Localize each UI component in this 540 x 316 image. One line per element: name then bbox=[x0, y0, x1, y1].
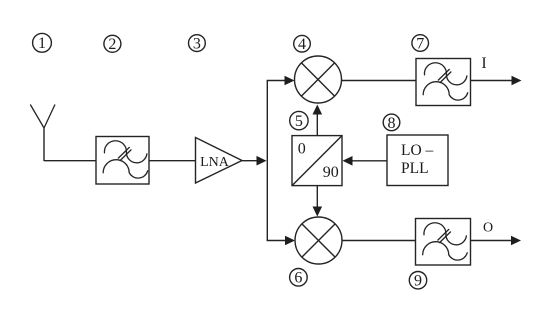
wire LO-PLL to phase box (arrow left) bbox=[343, 156, 388, 166]
callout 5 bbox=[290, 111, 308, 130]
svg-text:O: O bbox=[483, 221, 493, 236]
callout 4 bbox=[294, 35, 311, 53]
svg-text:1: 1 bbox=[38, 35, 46, 52]
wire mixer4 to filter7 bbox=[342, 80, 417, 82]
filter F9 (low-pass Q) bbox=[416, 219, 471, 266]
filter F2 (band-pass) bbox=[96, 137, 149, 185]
phase splitter 0/90 box bbox=[292, 136, 342, 186]
wire filter7 to I output bbox=[471, 76, 522, 86]
svg-text:I: I bbox=[481, 55, 486, 72]
antenna bbox=[30, 105, 55, 162]
svg-text:LO –: LO – bbox=[401, 142, 434, 159]
wire filter9 to O output bbox=[471, 236, 522, 246]
wire node to mixer4 bbox=[267, 76, 295, 86]
node split vertical wire bbox=[266, 81, 268, 241]
callout 1 bbox=[33, 33, 52, 52]
filter F7 (low-pass I) bbox=[416, 59, 471, 106]
oscillator LO-PLL box bbox=[387, 135, 448, 186]
wire phase box to mixer6 (arrow down) bbox=[313, 186, 323, 217]
callout 2 bbox=[104, 35, 121, 53]
svg-text:3: 3 bbox=[193, 36, 201, 53]
wire phase box to mixer4 (arrow up) bbox=[313, 105, 323, 136]
svg-text:5: 5 bbox=[295, 113, 303, 130]
svg-text:8: 8 bbox=[388, 115, 396, 132]
svg-text:LNA: LNA bbox=[200, 155, 230, 170]
svg-text:4: 4 bbox=[298, 36, 306, 53]
callout 9 bbox=[409, 272, 426, 290]
svg-text:7: 7 bbox=[416, 35, 424, 52]
wire LNA to splitter node bbox=[242, 156, 267, 166]
svg-text:9: 9 bbox=[414, 273, 422, 290]
callout 7 bbox=[412, 35, 429, 53]
svg-text:6: 6 bbox=[294, 270, 302, 287]
callout 8 bbox=[383, 114, 400, 132]
callout 6 bbox=[290, 269, 308, 287]
callout 3 bbox=[189, 35, 206, 53]
wire filter2 to LNA bbox=[149, 160, 196, 162]
mixer M4 bbox=[295, 56, 342, 103]
amplifier LNA bbox=[196, 138, 243, 184]
svg-text:2: 2 bbox=[108, 36, 116, 53]
svg-text:90: 90 bbox=[323, 164, 339, 181]
svg-text:0: 0 bbox=[298, 141, 306, 158]
svg-text:PLL: PLL bbox=[401, 160, 429, 177]
wire node to mixer6 bbox=[267, 236, 295, 246]
wire antenna to filter2 bbox=[44, 160, 96, 162]
wire mixer6 to filter9 bbox=[342, 240, 416, 242]
mixer M6 bbox=[295, 217, 342, 264]
